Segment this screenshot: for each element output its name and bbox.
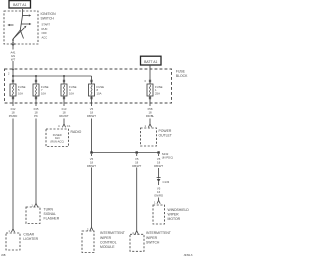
wire C133 to wiper motor [158, 182, 160, 200]
ignition switch contacts and wiper [7, 14, 31, 45]
svg-text:FLASHER: FLASHER [44, 216, 60, 220]
wire label F32 col 1 [9, 107, 18, 118]
fuse block dashed box [5, 69, 172, 103]
wire BATT A1 to fuse 1 [149, 65, 151, 84]
svg-text:CIGAR: CIGAR [23, 233, 34, 237]
radio pin marker 4 C1 [58, 124, 71, 128]
svg-text:BATT A1: BATT A1 [144, 60, 157, 64]
label: RADIO [71, 130, 82, 134]
svg-text:DB/WT: DB/WT [154, 164, 163, 168]
wire splice to connector C133 [158, 154, 160, 179]
label: TURN SIGNAL FLASHER [44, 207, 60, 220]
wire label A41 GN/WT [11, 51, 16, 62]
junction dots on bus [12, 75, 65, 77]
svg-text:PK/RD: PK/RD [9, 114, 18, 118]
wire label V5 col wiper switch [132, 157, 141, 168]
label: CIGAR LIGHTER [23, 233, 38, 242]
flasher pin marker 1 [31, 203, 37, 207]
svg-text:C133: C133 [163, 180, 170, 184]
svg-text:WT: WT [11, 58, 16, 62]
svg-text:CONTROL: CONTROL [100, 240, 117, 244]
label: WINDSHIELD WIPER MOTOR [168, 208, 190, 221]
svg-text:(RUN-ACC): (RUN-ACC) [50, 139, 64, 143]
svg-text:SWITCH: SWITCH [146, 240, 160, 244]
junction dot at fuse block entry [12, 69, 14, 71]
svg-text:INTERMITTENT: INTERMITTENT [100, 231, 125, 235]
svg-text:BATT A1: BATT A1 [13, 3, 26, 7]
svg-text:GN/RD: GN/RD [154, 193, 163, 197]
label: POWER OUTLET [159, 129, 172, 138]
svg-text:RUN: RUN [42, 27, 48, 31]
svg-text:ACC: ACC [42, 36, 48, 40]
terminal X marks above fuses [12, 80, 151, 82]
wiper control module pin marker 2 [87, 227, 93, 231]
svg-text:START: START [42, 23, 51, 27]
cigar lighter dashed box [6, 233, 20, 250]
fuse F4 [61, 84, 77, 96]
footer page code right [184, 253, 193, 257]
svg-text:INTERMITTENT: INTERMITTENT [146, 231, 171, 235]
wire label F35 col 2 [34, 107, 39, 118]
wire col3 down to radio [63, 119, 65, 124]
wire col4 splice to wiper control module [91, 154, 93, 227]
battery feed box BATT A1 (top left) [9, 1, 31, 8]
radio U1 dashed box [46, 129, 69, 147]
svg-text:OFF: OFF [42, 31, 48, 35]
svg-text:LIGHTER: LIGHTER [23, 237, 38, 241]
svg-text:MOTOR: MOTOR [168, 217, 181, 221]
svg-text:RD/WT: RD/WT [59, 114, 68, 118]
svg-text:(IN PDC): (IN PDC) [162, 156, 173, 160]
svg-text:WINDSHIELD: WINDSHIELD [168, 208, 190, 212]
pin label at entry [8, 73, 10, 76]
fuse F5 [10, 84, 26, 96]
svg-text:DB/WT: DB/WT [87, 114, 96, 118]
pin label at BATT feed entry [145, 80, 147, 83]
svg-text:10A: 10A [69, 92, 74, 96]
svg-text:10A: 10A [18, 92, 23, 96]
svg-text:RADIO: RADIO [71, 130, 82, 134]
svg-text:SIGNAL: SIGNAL [44, 212, 57, 216]
bus wire inside fuse block [13, 75, 92, 77]
svg-text:WIPER: WIPER [100, 236, 112, 240]
cigar lighter pin marker 1 [8, 229, 14, 233]
wires fuses to fuse block bottom edge [13, 96, 150, 106]
svg-text:MODULE: MODULE [100, 245, 115, 249]
turn signal flasher dashed box [26, 207, 40, 224]
svg-text:POWER: POWER [159, 129, 172, 133]
wire label V5 16 GN/RD [154, 186, 163, 197]
footer page code left [1, 253, 6, 257]
label: INTERMITTENT WIPER SWITCH [146, 231, 171, 244]
label: FUSE BLOCK [176, 69, 188, 78]
wire label F58 col 5 [146, 107, 155, 118]
wire label V5 col C133 upper [154, 157, 163, 168]
wire col4 down to splice junction [91, 119, 93, 153]
terminal X marks below fuses [12, 97, 151, 99]
label: INTERMITTENT WIPER CONTROL MODULE [100, 231, 125, 249]
svg-text:WIPER: WIPER [168, 213, 180, 217]
power outlet dashed box [141, 128, 157, 146]
intermittent wiper control module dashed box [82, 231, 94, 253]
wire BATT A1 to ignition switch [22, 9, 24, 16]
label: S232 (IN PDC) [162, 152, 173, 160]
fuse F7 [33, 84, 49, 96]
svg-text:DB/WT: DB/WT [87, 164, 96, 168]
label: IGNITION SWITCH positions [41, 12, 57, 40]
wire stubs bus to fuses [13, 69, 92, 84]
wire col2 down to turn signal flasher [35, 119, 37, 204]
in-line connector C133 [157, 178, 170, 184]
wiper motor pin marker 1 [154, 200, 160, 204]
wire col1 down to cigar lighter [12, 119, 14, 229]
svg-text:25A: 25A [155, 92, 160, 96]
splice wire S232 horizontal [92, 152, 159, 154]
intermittent wiper switch dashed box [130, 234, 144, 251]
wire label V5 col 4 [87, 107, 96, 118]
battery feed box BATT A1 (right, above fuse block) [141, 56, 162, 65]
svg-text:DB/WT: DB/WT [132, 164, 141, 168]
wiper switch pin marker 4 [132, 231, 138, 235]
svg-text:RD/BL: RD/BL [146, 114, 155, 118]
svg-text:J9B: J9B [1, 253, 6, 257]
wire col5 down to power outlet [149, 119, 151, 124]
svg-text:OUTLET: OUTLET [159, 134, 172, 138]
windshield wiper motor M1 dashed box [153, 205, 165, 224]
svg-text:WIPER: WIPER [146, 236, 158, 240]
wire ignition switch to fuse block [12, 44, 14, 69]
svg-text:C1: C1 [67, 124, 71, 128]
svg-text:FUSE: FUSE [176, 69, 186, 73]
svg-text:TURN: TURN [44, 207, 54, 211]
ignition switch SW1 dashed box [4, 11, 38, 44]
svg-text:10A: 10A [97, 92, 102, 96]
wire label V5 below splice col4 [87, 157, 96, 168]
wire splice to intermittent wiper switch [136, 154, 138, 231]
svg-text:SWITCH: SWITCH [41, 16, 55, 20]
svg-text:IGNITION: IGNITION [41, 12, 57, 16]
wire label F13 col 3 [59, 107, 68, 118]
svg-text:BLOCK: BLOCK [176, 74, 188, 78]
fuse F8 [89, 84, 105, 96]
splice junction dots [90, 151, 159, 153]
fuse F1 [147, 84, 163, 96]
svg-text:J94W-6: J94W-6 [184, 253, 193, 257]
svg-text:PK: PK [34, 114, 38, 118]
power outlet pin marker 1 [145, 124, 152, 128]
svg-text:10A: 10A [41, 92, 46, 96]
